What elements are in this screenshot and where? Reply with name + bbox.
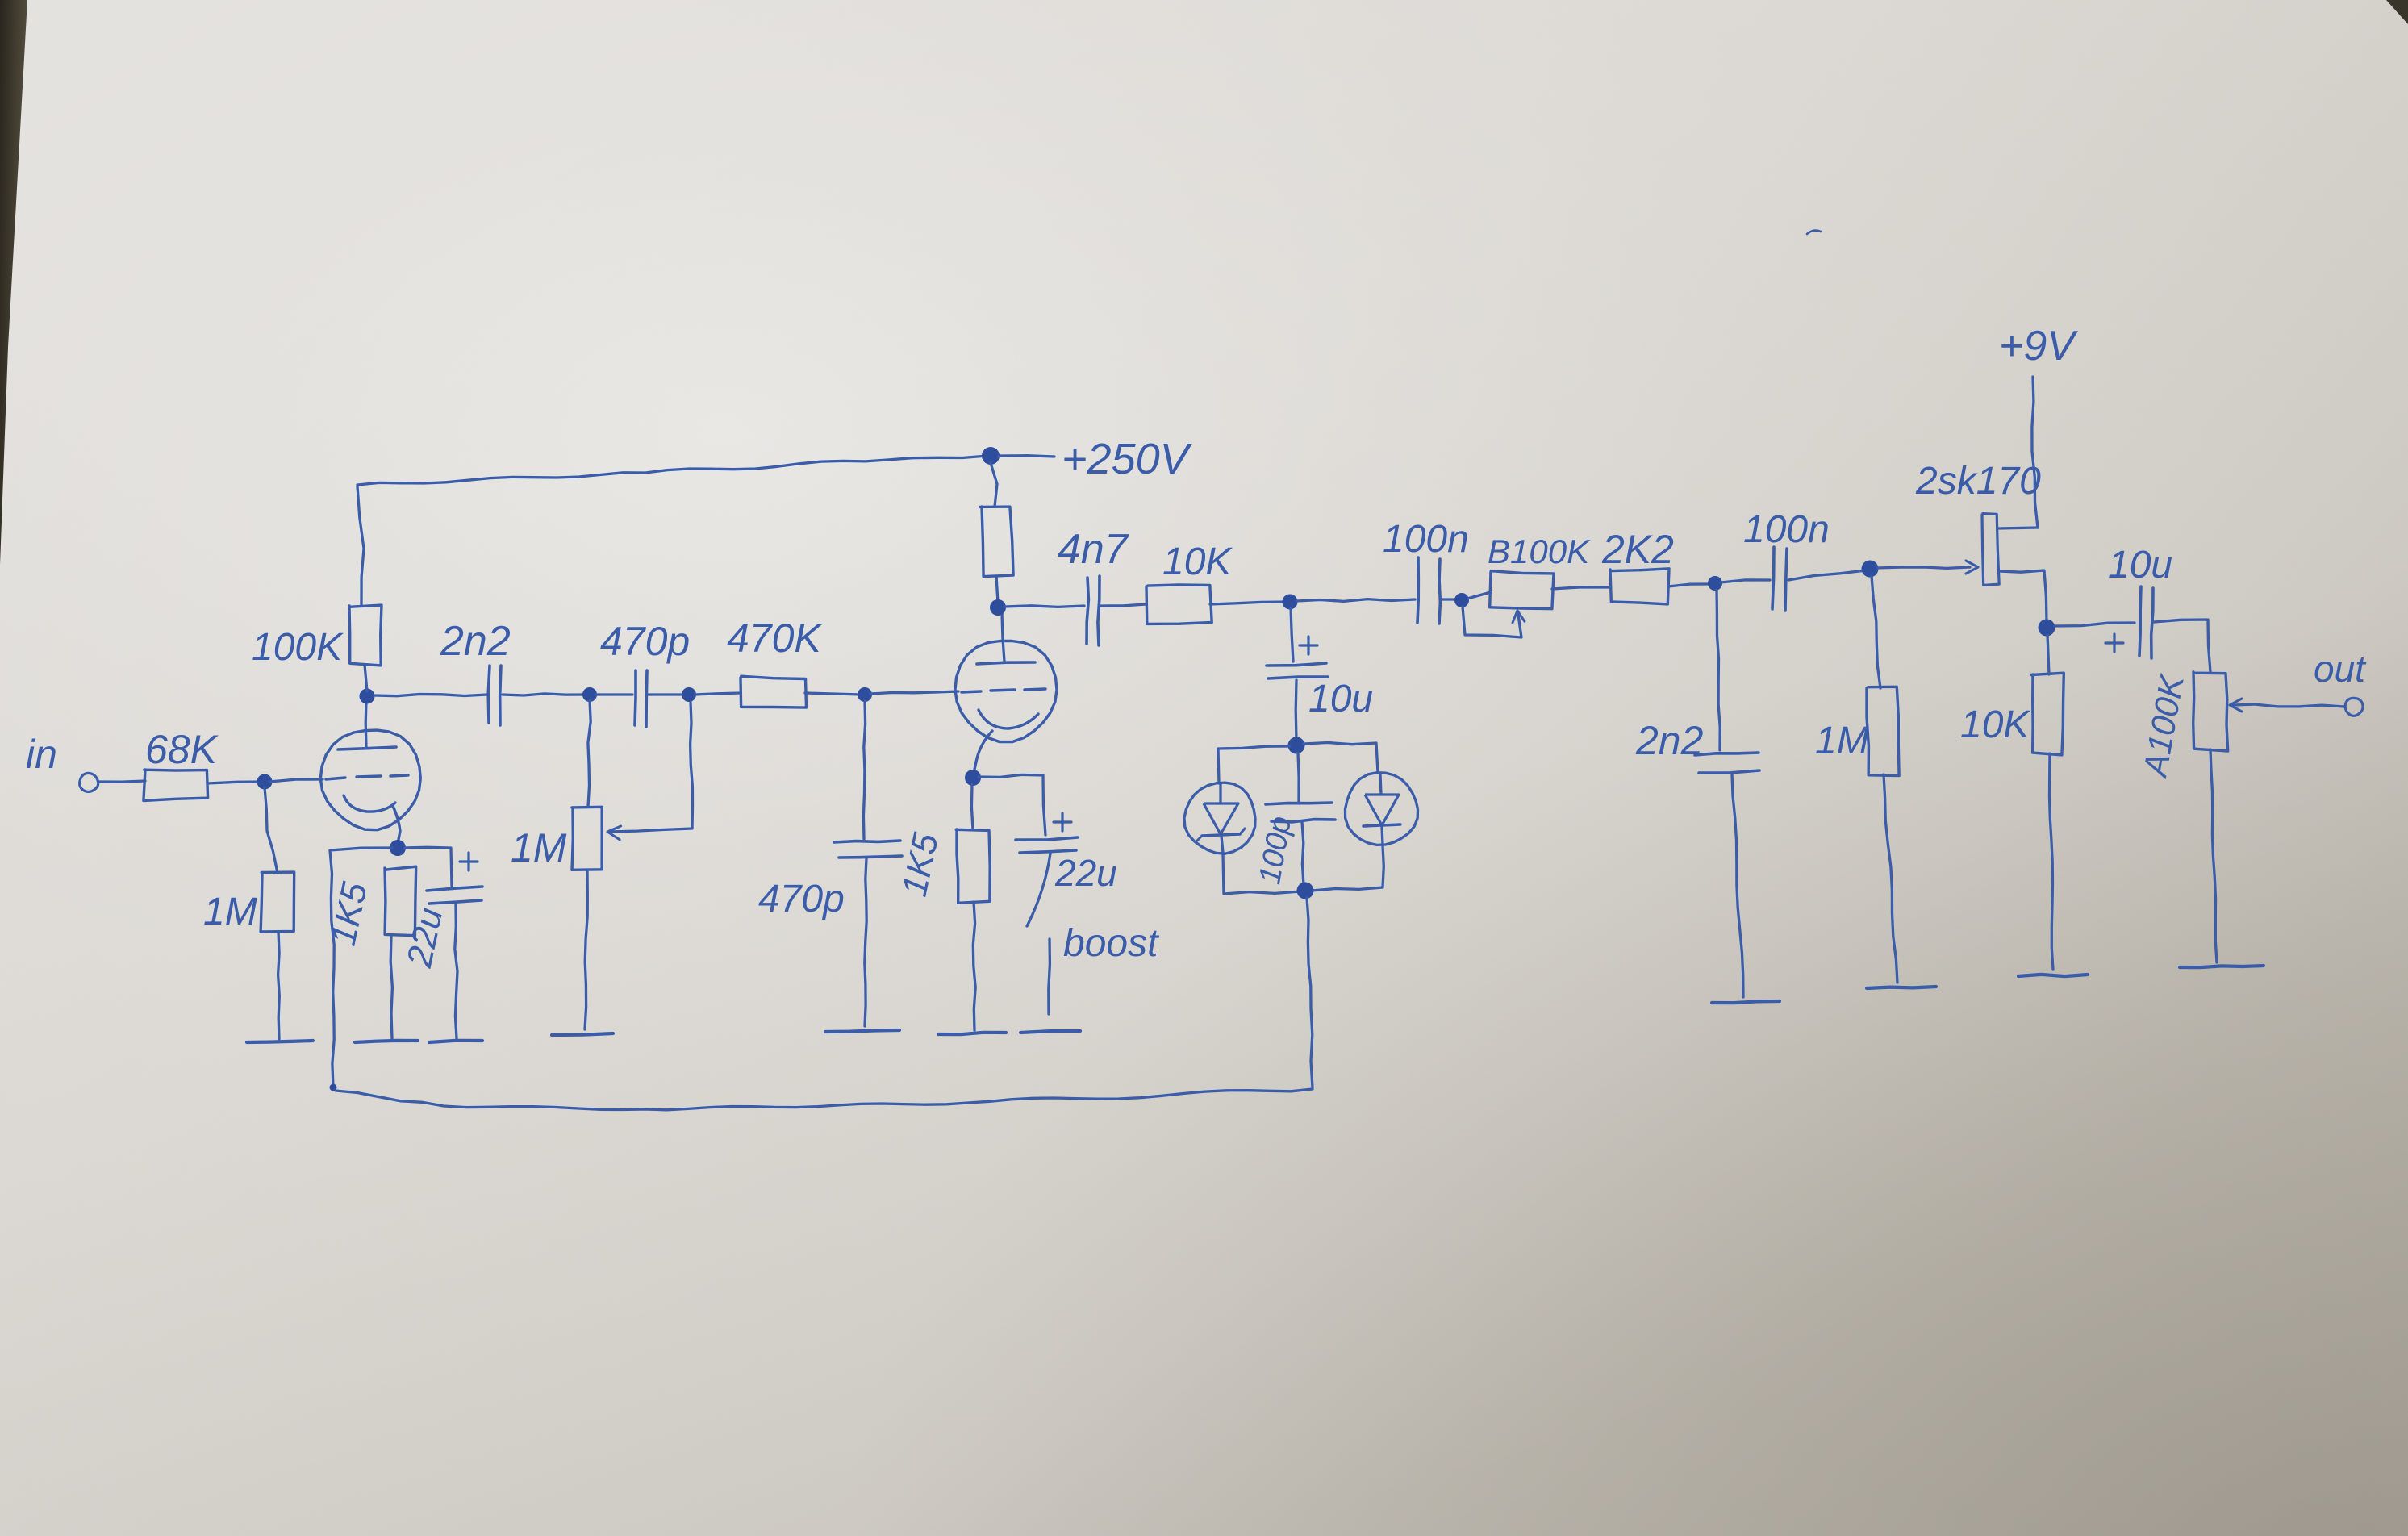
wire +250V node to label xyxy=(999,456,1054,457)
wire bottom return xyxy=(336,1089,1313,1110)
label 2sk170 xyxy=(1915,460,2041,503)
label 10K output xyxy=(1960,703,2030,746)
wire V2 cathode to 1K5 xyxy=(971,784,973,829)
label 470p shunt xyxy=(758,878,845,920)
wire node D to V2 grid xyxy=(870,691,958,694)
node V2 cathode xyxy=(965,770,981,786)
label 1M pot xyxy=(511,825,567,870)
wire rail corner down to 100K xyxy=(357,486,364,605)
ground 470p shunt xyxy=(825,1030,899,1032)
node clipper bottom xyxy=(1297,883,1314,899)
wire source node to 10u output xyxy=(2055,623,2135,626)
label 100K xyxy=(252,626,344,669)
ground 2n2 shunt xyxy=(1712,1001,1780,1003)
node V1 anode xyxy=(360,689,375,704)
resistor 2K2 xyxy=(1610,569,1669,604)
label +250V xyxy=(1062,435,1193,483)
capacitor 100p xyxy=(1266,753,1335,885)
label boost xyxy=(1063,922,1159,965)
wire node F to LED xyxy=(1304,743,1378,774)
wire 470p to node C xyxy=(649,693,686,695)
resistor 1M input xyxy=(261,872,294,932)
label 2n2 shunt xyxy=(1635,718,1704,763)
svg-text:B100K: B100K xyxy=(1488,532,1591,570)
wire source node down to 10K xyxy=(2047,635,2049,674)
LED diode xyxy=(1346,773,1418,845)
label A100K xyxy=(2135,670,2191,781)
resistor plate V2 xyxy=(980,507,1013,577)
node I xyxy=(1708,576,1722,591)
svg-text:100n: 100n xyxy=(1383,518,1469,561)
wire 2n2 to node B xyxy=(503,694,586,695)
wire node B down to pot 1M xyxy=(588,700,591,807)
wire node D down to 470p shunt xyxy=(863,701,865,839)
resistor 1K5 stage2 xyxy=(956,829,990,903)
svg-text:10u: 10u xyxy=(1308,678,1373,720)
wire 4n7 to 10K xyxy=(1101,604,1146,606)
wire 100n to node H xyxy=(1441,598,1458,600)
svg-text:470K: 470K xyxy=(727,616,823,661)
capacitor 2n2 shunt xyxy=(1695,753,1759,773)
svg-text:in: in xyxy=(26,732,57,777)
potentiometer B100K xyxy=(1463,571,1554,637)
capacitor 22u stage2 xyxy=(1016,837,1078,853)
triode V1 xyxy=(320,700,420,844)
wire LED to clipper bottom node xyxy=(1312,845,1383,891)
wire A100K to ground xyxy=(2210,749,2217,962)
label 22u stage1 xyxy=(399,904,450,971)
wire 2n2 shunt to ground xyxy=(1732,774,1743,997)
wire node E to 100n first xyxy=(1296,599,1415,602)
wire grid node to V1 xyxy=(269,779,323,782)
svg-text:100n: 100n xyxy=(1743,508,1830,551)
wire B100K to 2K2 xyxy=(1552,587,1610,589)
svg-text:2sk170: 2sk170 xyxy=(1915,460,2041,503)
node J xyxy=(1862,561,1879,578)
label plus 10u shunt xyxy=(1300,637,1317,654)
node V1 cathode xyxy=(390,840,406,856)
resistor 10K series xyxy=(1146,585,1212,624)
svg-text:22u: 22u xyxy=(1054,852,1117,894)
svg-text:+9V: +9V xyxy=(1999,323,2078,369)
label plus 10u output xyxy=(2105,634,2123,652)
label 10K series xyxy=(1162,541,1233,583)
svg-text:470p: 470p xyxy=(758,878,845,920)
label in xyxy=(26,732,57,777)
label 4n7 xyxy=(1058,526,1129,573)
boost switch xyxy=(1027,854,1050,1014)
node B xyxy=(582,687,597,702)
label 100n first xyxy=(1383,518,1469,561)
label 470K xyxy=(727,616,823,661)
wire input to 68K xyxy=(98,781,145,782)
ground pot 1M xyxy=(552,1033,613,1035)
svg-text:boost: boost xyxy=(1063,922,1159,965)
label 1M output xyxy=(1815,720,1869,762)
wire V2 anode to 4n7 xyxy=(1004,606,1084,607)
wire zener to clipper bottom node xyxy=(1223,854,1300,894)
svg-text:4n7: 4n7 xyxy=(1058,526,1129,573)
label 100n second xyxy=(1743,508,1830,551)
wire node H to B100K xyxy=(1467,592,1491,599)
ground 10K output xyxy=(2018,975,2088,976)
svg-text:1M: 1M xyxy=(203,891,257,933)
ground 22u stage1 xyxy=(429,1041,482,1042)
output terminal xyxy=(2345,698,2363,716)
svg-text:+250V: +250V xyxy=(1062,435,1193,483)
label plus 22u stage2 xyxy=(1054,813,1071,831)
wire 10K output to ground xyxy=(2050,753,2054,970)
resistor 1K5 stage1 xyxy=(385,866,416,936)
stray pen mark xyxy=(1807,231,1821,234)
label 1M input xyxy=(203,891,257,933)
ground 1M output xyxy=(1867,987,1936,988)
label 68K xyxy=(145,727,219,772)
capacitor 10u shunt xyxy=(1267,663,1328,741)
label 2K2 xyxy=(1601,527,1674,572)
label plus 22u stage1 xyxy=(460,853,478,870)
wire 1M input to ground xyxy=(278,932,280,1039)
wire A100K wiper to out xyxy=(2230,699,2344,712)
node E xyxy=(1283,595,1298,610)
label 10u shunt xyxy=(1308,678,1373,720)
capacitor 100n first xyxy=(1417,557,1440,624)
wire 1K5 stage2 to ground xyxy=(973,902,975,1030)
wire node I to 100n second xyxy=(1721,580,1770,582)
wire JFET drain to +9V xyxy=(2032,377,2038,528)
wire 2K2 to node I xyxy=(1668,584,1712,586)
potentiometer A100K xyxy=(2193,672,2228,751)
node JFET source xyxy=(2039,620,2055,637)
wire node B to 470p xyxy=(595,693,632,695)
zener diode xyxy=(1184,783,1255,854)
capacitor 4n7 xyxy=(1087,576,1100,645)
node C xyxy=(682,687,696,702)
ground A100K xyxy=(2180,966,2264,967)
svg-text:10u: 10u xyxy=(2108,544,2172,586)
svg-text:10K: 10K xyxy=(1960,703,2030,746)
wire node E down to 10u xyxy=(1291,608,1293,662)
label B100K xyxy=(1488,532,1591,570)
wire node J down to 1M output xyxy=(1872,576,1880,688)
wire +250V node down to plate resistor xyxy=(991,463,997,507)
node H xyxy=(1454,593,1469,607)
wire clipper bottom down to return xyxy=(1307,898,1313,1087)
svg-text:10K: 10K xyxy=(1162,541,1233,583)
svg-text:1M: 1M xyxy=(1815,720,1869,762)
ground input 1M xyxy=(247,1041,313,1042)
node V2 anode xyxy=(990,599,1006,616)
ground 1K5 stage1 xyxy=(355,1041,418,1042)
capacitor 470p coupling xyxy=(635,670,647,727)
label 10u output xyxy=(2108,544,2172,586)
svg-text:100K: 100K xyxy=(252,626,344,669)
wire 10u output to A100K xyxy=(2154,620,2210,672)
wire node F to zener xyxy=(1218,746,1290,783)
svg-text:68K: 68K xyxy=(145,727,219,772)
label 1K5 stage1 xyxy=(323,879,375,949)
svg-text:2n2: 2n2 xyxy=(440,618,511,665)
wire 100K to anode node xyxy=(365,665,367,691)
node D xyxy=(858,687,872,702)
wire 100n second to node J xyxy=(1788,570,1866,580)
wire node I down to 2n2 shunt xyxy=(1717,590,1720,750)
wire 1K5 stage1 to ground xyxy=(390,936,392,1039)
wire node J to JFET gate xyxy=(1877,561,1978,574)
wire 68K to grid node xyxy=(207,782,267,783)
input terminal xyxy=(80,773,98,791)
wire plate resistor to V2 anode node xyxy=(996,576,998,603)
wire cathode box right branch to 22u xyxy=(404,847,452,886)
wire cathode box left branch xyxy=(330,848,393,1091)
ground boost switch xyxy=(1020,1031,1080,1033)
resistor 100K plate xyxy=(349,605,382,666)
node V1 grid xyxy=(257,774,273,790)
capacitor 100n second xyxy=(1772,547,1787,611)
label 100p xyxy=(1253,814,1298,887)
wire 470p shunt to ground xyxy=(865,858,866,1026)
wire 10K to node E xyxy=(1210,602,1287,604)
node F clipper top xyxy=(1288,737,1305,754)
ground 1K5 stage2 xyxy=(938,1033,1006,1034)
label +9V xyxy=(1999,323,2078,369)
resistor 68K xyxy=(144,770,208,801)
triode V2 xyxy=(955,613,1057,773)
capacitor 22u stage1 xyxy=(427,887,482,1038)
svg-text:2K2: 2K2 xyxy=(1601,527,1674,572)
wire pot 1M to ground xyxy=(585,871,587,1029)
wire grid node down to 1M xyxy=(265,787,278,873)
wire V2 cathode to 22u stage2 xyxy=(979,774,1045,835)
label 470p coupling xyxy=(600,619,690,664)
svg-text:out: out xyxy=(2314,648,2367,690)
label 22u stage2 xyxy=(1054,852,1117,894)
resistor 1M output xyxy=(1867,687,1899,775)
label 1K5 stage2 xyxy=(895,829,946,899)
node +250V xyxy=(982,447,1000,465)
wire node C to 470K xyxy=(695,693,741,695)
label 2n2 coupling xyxy=(440,618,511,665)
wire V1 anode to 2n2 xyxy=(374,695,487,696)
svg-text:1M: 1M xyxy=(511,825,567,870)
capacitor 10u output xyxy=(2139,586,2153,658)
transistor JFET 2SK170 xyxy=(1982,514,2047,622)
wire 1M output to ground xyxy=(1884,774,1897,983)
wire +250V rail xyxy=(357,456,987,485)
label out xyxy=(2314,648,2367,690)
potentiometer 1M xyxy=(572,702,693,870)
wire 470K to node D xyxy=(805,693,862,695)
resistor 10K output xyxy=(2031,673,2064,755)
svg-text:2n2: 2n2 xyxy=(1635,718,1704,763)
capacitor 470p shunt xyxy=(834,841,902,858)
svg-text:470p: 470p xyxy=(600,619,690,664)
resistor 470K xyxy=(741,676,807,707)
capacitor 2n2 coupling xyxy=(488,666,501,725)
